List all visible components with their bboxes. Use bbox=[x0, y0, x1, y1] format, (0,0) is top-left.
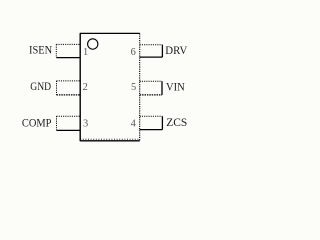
pin 6 pad bbox=[140, 45, 163, 57]
pin 3 pad bbox=[57, 116, 81, 130]
svg-text:VIN: VIN bbox=[166, 82, 185, 94]
svg-text:COMP: COMP bbox=[22, 117, 52, 129]
svg-text:DRV: DRV bbox=[165, 45, 188, 57]
IC body U1 (SOT-23-6 outline) bbox=[80, 33, 140, 141]
pin number 2 bbox=[83, 82, 88, 93]
pin name ZCS bbox=[166, 117, 187, 129]
pin name DRV bbox=[165, 45, 188, 57]
pin name COMP bbox=[22, 117, 52, 129]
svg-text:4: 4 bbox=[131, 118, 137, 129]
svg-text:ISEN: ISEN bbox=[29, 45, 52, 57]
svg-text:5: 5 bbox=[131, 82, 136, 93]
pin 5 pad bbox=[140, 81, 162, 95]
svg-text:1: 1 bbox=[83, 47, 88, 58]
pin number 4 bbox=[131, 118, 137, 129]
svg-text:2: 2 bbox=[83, 82, 88, 93]
svg-text:GND: GND bbox=[30, 81, 51, 93]
pin name GND bbox=[30, 81, 51, 93]
pin 4 pad bbox=[140, 116, 163, 129]
pin number 5 bbox=[131, 82, 136, 93]
pin 1 indicator circle bbox=[88, 39, 98, 49]
svg-text:6: 6 bbox=[131, 47, 136, 58]
pin name ISEN bbox=[29, 45, 52, 57]
pin number 3 bbox=[83, 118, 88, 129]
pin number 6 bbox=[131, 47, 136, 58]
pin 1 pad bbox=[56, 44, 80, 57]
pin number 1 bbox=[83, 47, 88, 58]
pin name VIN bbox=[166, 82, 185, 94]
svg-text:ZCS: ZCS bbox=[166, 117, 187, 129]
svg-text:3: 3 bbox=[83, 118, 88, 129]
pin 2 pad bbox=[57, 81, 81, 95]
